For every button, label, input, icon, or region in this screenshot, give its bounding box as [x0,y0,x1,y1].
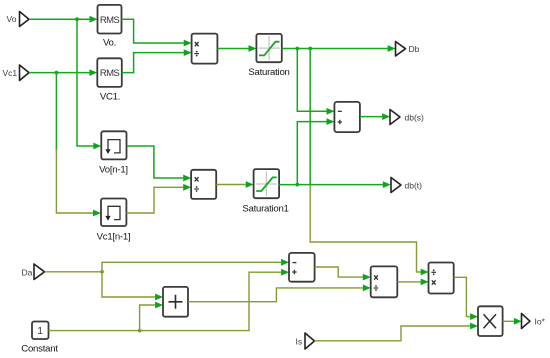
arrow into product1 divide [184,49,192,56]
multiply block [478,306,503,336]
wire Vc1[n-1] to product2 divide input [126,187,183,213]
divider divide glyph [431,271,436,273]
Saturation1 curve [256,177,277,191]
arrow into Saturation [249,45,257,52]
svg-text:Vo[n-1]: Vo[n-1] [99,165,128,176]
svg-text:VC1.: VC1. [100,92,120,103]
sum block 2 [289,253,315,282]
wire long vertical olive continuation [310,184,421,272]
wire product2 to Saturation1 [216,184,246,186]
arrow into product3 divide [363,285,371,292]
arrow into sum2 plus [281,269,289,276]
svg-text:db(s): db(s) [405,113,425,123]
arrow into RMS Vo. [90,16,98,23]
arrow into plus block input1 [155,294,163,301]
wire junction down to sum1 minus [297,49,326,112]
arrow into multiply top [470,313,478,320]
wire Vo junction down to Vo[n-1] [77,19,94,146]
arrow into multiply bottom [470,323,478,330]
RMS block VC1. [97,58,122,87]
svg-text:Constant: Constant [21,344,58,355]
wire Da to junction [45,271,103,273]
input port Da [34,264,45,280]
saturation block Saturation1 [254,169,280,198]
input port Vo [20,12,30,27]
wire RMS Vo. to product1 x input [122,19,184,43]
wire Is to multiply bottom [315,326,471,341]
Vc1[n-1] icon arrow [105,216,110,221]
wire plus block to product3 divide [188,288,363,302]
Saturation curve [259,42,280,56]
arrow into db(t) port [383,181,391,188]
Saturation axes [259,36,280,60]
svg-text:Saturation1: Saturation1 [242,204,288,215]
arrow into Vo[n-1] [93,143,101,150]
memory block Vo[n-1] [101,131,126,159]
svg-text:Vc1[n-1]: Vc1[n-1] [97,232,131,243]
junction on Vo wire [75,17,79,21]
svg-text:Io*: Io* [535,317,546,327]
arrow into divider x input [421,279,429,286]
arrow into sum2 minus [281,259,289,266]
svg-text:Da: Da [22,268,33,278]
wire Da junction up to sum2 minus [102,262,281,272]
sum1 minus glyph [338,110,342,112]
wire junction up to sum1 plus [297,122,326,185]
sum block 1 [334,102,360,132]
product1 x glyph [195,42,199,46]
divider block 4 [429,263,454,294]
multiply X glyph [484,314,497,328]
arrow into plus block input2 [155,302,163,309]
svg-text:Is: Is [296,337,303,347]
memory block Vc1[n-1] [101,199,126,227]
output port db(t) [391,178,401,193]
wire Vo[n-1] to product2 x input [127,146,184,178]
wire Vc1 junction down to Vc1[n-1] [55,73,57,150]
svg-text:Db: Db [409,44,420,54]
arrow into RMS VC1. [89,69,97,76]
svg-text:1: 1 [37,326,43,337]
junction Da wire [100,270,104,274]
product3 x glyph [374,275,378,279]
arrow into Saturation1 [246,181,254,188]
arrow into product2 divide [183,184,191,191]
product3 divide glyph [374,287,379,289]
wire Constant junction up to plus block input2 [140,305,156,331]
svg-text:Vo: Vo [7,14,17,24]
Vo[n-1] icon arrow [105,149,110,154]
Saturation1 axes [256,171,277,195]
svg-text:db(t): db(t) [405,181,423,191]
divider x glyph [432,280,436,284]
wire Saturation1 to db(t) [279,184,383,186]
arrow into Db port [388,45,396,52]
wire RMS VC1. to product1 divide input [122,53,184,73]
input port Is [305,333,315,349]
product2 x glyph [195,177,199,181]
wire sum1 to db(s) [360,116,382,118]
wire Constant to sum2 plus [49,272,282,330]
product block 1 [192,34,218,64]
wire product3 to divider x input [397,281,421,283]
RMS block Vo. [98,5,122,34]
product2 divide glyph [194,188,199,190]
junction on Vc1 wire [55,71,59,75]
sum2 plus glyph [292,270,296,274]
wire product1 to Saturation [217,48,248,50]
sum2 minus glyph [292,262,296,264]
wire Da junction down to plus block input1 [102,272,155,297]
arrow into divider block top [421,269,429,276]
junction db(t) wire [295,183,299,187]
svg-text:Vc1: Vc1 [3,68,18,78]
wire multiply to Io* [503,320,514,322]
sum1 plus glyph [338,120,342,124]
wire Vo to RMS [29,18,90,20]
arrow into Io* port [514,318,522,325]
saturation block Saturation [256,34,281,62]
svg-text:RMS: RMS [100,15,120,26]
output port db(s) [390,110,400,125]
arrow into db(s) port [382,113,390,120]
junction Db wire right [308,47,312,51]
input port Vc1 [20,65,30,81]
plus block [163,287,188,317]
arrow into product1 x [184,40,192,47]
constant block 1 [32,322,49,340]
arrow into product2 x [183,175,191,182]
product block 3 [371,266,398,297]
wire divider to multiply top [454,277,471,316]
svg-text:Saturation: Saturation [248,67,289,78]
svg-text:RMS: RMS [100,68,120,79]
svg-text:Vo.: Vo. [103,38,116,49]
product block 2 [191,170,216,199]
output port Db [396,42,406,57]
plus block glyph [169,295,183,309]
wire sum2 to product3 x [315,267,363,277]
junction Constant wire [138,329,142,333]
arrow into Vc1[n-1] [93,210,101,217]
junction Db wire left [295,47,299,51]
wire Saturation to Db [282,48,388,50]
arrow into product3 x [363,274,371,281]
arrow into sum1 plus [327,118,335,125]
wire Vc1 to RMS [29,72,90,74]
wire long vertical to divider block [309,49,311,185]
Vc1[n-1] loop icon [108,206,120,219]
output port Io* [522,314,531,329]
arrow into sum1 minus [327,108,335,115]
product1 divide glyph [194,53,199,55]
Vo[n-1] loop icon [108,140,120,153]
